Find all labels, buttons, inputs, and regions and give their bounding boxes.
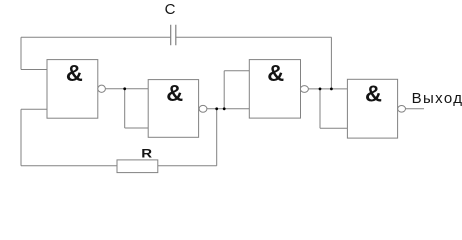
svg-text:&: &	[66, 60, 83, 86]
svg-text:R: R	[141, 147, 152, 160]
svg-text:&: &	[166, 80, 183, 106]
svg-text:Выход: Выход	[412, 90, 462, 107]
svg-text:&: &	[267, 60, 284, 86]
svg-text:C: C	[165, 1, 176, 18]
svg-text:&: &	[365, 81, 382, 107]
